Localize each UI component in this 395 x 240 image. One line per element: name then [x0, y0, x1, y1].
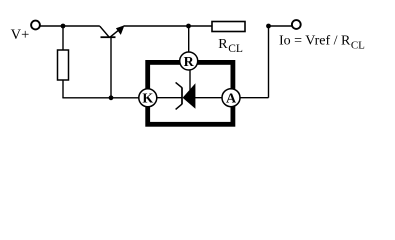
TL431 internal zener diode D1 — [176, 82, 196, 109]
wire — [62, 26, 64, 50]
node A anode — [222, 89, 240, 107]
wire — [268, 26, 270, 98]
wire — [189, 70, 191, 90]
wire — [124, 25, 212, 27]
terminal Io output — [292, 20, 301, 29]
wire — [195, 97, 223, 99]
wire — [269, 25, 292, 27]
terminal V+ — [31, 21, 40, 30]
op-amp U1 TL431 box — [148, 62, 233, 124]
node output — [266, 24, 271, 29]
svg-text:A: A — [226, 92, 237, 107]
svg-text:K: K — [142, 92, 153, 107]
node at transistor base — [109, 95, 114, 100]
resistor R1 — [58, 50, 69, 80]
wire — [188, 26, 190, 52]
wire — [240, 97, 269, 99]
wire — [62, 97, 139, 99]
svg-text:V+: V+ — [11, 27, 30, 43]
resistor RCL — [212, 22, 245, 32]
transistor Q1 — [100, 25, 125, 98]
node K cathode — [139, 89, 157, 107]
wire — [40, 25, 100, 27]
node above reference — [186, 24, 191, 29]
svg-text:R: R — [184, 55, 195, 70]
svg-text:RCL: RCL — [218, 37, 243, 55]
wire — [62, 80, 64, 98]
node at resistor top — [61, 24, 66, 29]
node R reference — [180, 52, 198, 70]
wire — [157, 97, 183, 99]
svg-text:Io = Vref / RCL: Io = Vref / RCL — [279, 34, 365, 52]
